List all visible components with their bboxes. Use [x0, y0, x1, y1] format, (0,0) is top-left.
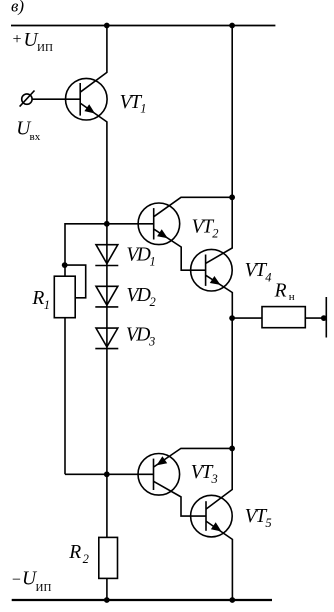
svg-text:4: 4 — [265, 271, 271, 285]
svg-text:1: 1 — [44, 298, 50, 312]
svg-text:R: R — [274, 281, 287, 302]
svg-text:VT: VT — [120, 92, 143, 113]
svg-text:R: R — [68, 542, 81, 563]
svg-text:VD: VD — [126, 285, 150, 306]
svg-text:−: − — [11, 572, 22, 589]
svg-text:+: + — [12, 31, 23, 48]
svg-text:VT: VT — [192, 217, 215, 238]
svg-text:ИП: ИП — [37, 42, 53, 54]
svg-text:н: н — [289, 291, 295, 303]
svg-text:1: 1 — [140, 102, 146, 116]
svg-text:2: 2 — [212, 227, 218, 241]
svg-text:ИП: ИП — [36, 582, 52, 594]
svg-text:VD: VD — [126, 245, 150, 266]
svg-text:VT: VT — [245, 506, 268, 527]
svg-text:VD: VD — [126, 325, 150, 346]
svg-text:VT: VT — [245, 260, 268, 281]
svg-text:VT: VT — [191, 462, 214, 483]
svg-text:вх: вх — [30, 131, 41, 143]
svg-text:3: 3 — [211, 472, 218, 486]
svg-text:3: 3 — [148, 335, 155, 349]
svg-text:2: 2 — [83, 552, 89, 566]
svg-text:5: 5 — [265, 516, 271, 530]
svg-text:2: 2 — [150, 295, 156, 309]
svg-text:1: 1 — [150, 255, 156, 269]
svg-text:R: R — [31, 288, 44, 309]
svg-text:в): в) — [11, 0, 24, 16]
